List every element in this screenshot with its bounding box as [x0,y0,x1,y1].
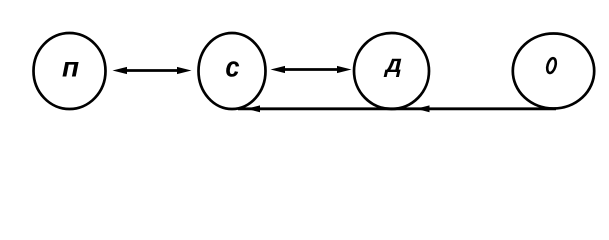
wire С-Д double arrow shaft [282,68,340,71]
node О label [546,57,558,74]
arrowhead П-С left [113,67,128,74]
svg-text:с: с [225,50,239,83]
wire П-С double arrow shaft [124,69,181,72]
svg-text:п: п [62,51,79,82]
node С circle [199,33,266,109]
node О circle [513,34,594,109]
svg-text:д: д [383,50,405,78]
arrowhead С-Д right [337,66,352,73]
wire О to С bottom feedback line [238,107,556,110]
arrowhead С-Д left [271,66,286,73]
node Д label [383,50,405,78]
node П circle [34,33,106,109]
node Д circle [354,33,429,109]
arrowhead bottom at С [247,105,261,112]
arrowhead П-С right [177,67,192,74]
arrowhead bottom at Д [416,105,430,112]
